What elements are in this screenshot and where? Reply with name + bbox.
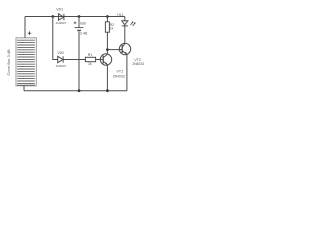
svg-text:Bat: Bat [80, 21, 85, 25]
wire VT1 emitter down to bottom rail [106, 65, 108, 91]
wire R1 to VT1 base [96, 59, 104, 61]
svg-text:VD1: VD1 [56, 8, 63, 12]
resistor R1 [85, 57, 95, 61]
wire R2 bottom to node D [106, 32, 108, 49]
wire node B down to battery [78, 17, 80, 28]
resistor R2 [105, 22, 109, 32]
battery Bat 2.4V [75, 28, 84, 31]
svg-text:2.4В: 2.4В [80, 32, 88, 36]
diode VD1 1N4007 [59, 14, 64, 20]
wire top rail [25, 16, 125, 18]
wire battery minus down to bottom rail [78, 31, 80, 90]
svg-text:Солн.бат 3,4В: Солн.бат 3,4В [6, 49, 11, 76]
node D junction (VT1 collector / VT2 base) [106, 48, 109, 51]
wire solar minus down to bottom rail [23, 86, 25, 91]
node A junction (VD2 branch) [51, 15, 54, 18]
LED HL1 [122, 17, 128, 26]
LED light emission arrows [131, 21, 136, 26]
diode VD2 1N4007 [58, 56, 63, 62]
wire VT1 collector up to node D [106, 50, 108, 55]
wire node C to R2 [106, 17, 108, 22]
node F junction (VT1 emitter on bottom rail) [106, 89, 109, 92]
plus sign at solar positive terminal [28, 31, 32, 35]
wire node D to VT2 base [107, 49, 122, 51]
svg-text:VT1: VT1 [117, 69, 124, 73]
node B junction (battery branch) [78, 15, 81, 18]
transistor VT2 2N4033 [119, 43, 130, 54]
svg-text:2N4033: 2N4033 [113, 74, 125, 78]
svg-text:1k: 1k [88, 62, 92, 66]
svg-text:HL1: HL1 [117, 13, 123, 17]
transistor VT1 2N4033 [100, 54, 111, 65]
wire VD2 cathode to R1 [63, 59, 85, 61]
wire VT2 collector up to LED cathode [124, 26, 126, 44]
svg-text:1k: 1k [110, 26, 114, 30]
svg-text:1N4007: 1N4007 [56, 21, 67, 25]
svg-text:R1: R1 [88, 53, 93, 57]
wire bottom rail [24, 90, 127, 92]
svg-text:VD2: VD2 [57, 51, 64, 55]
wire solar plus terminal up to top rail [24, 17, 26, 38]
node C junction (R2 top on rail) [106, 15, 109, 18]
wire VT2 emitter down to bottom rail [126, 54, 128, 91]
plus sign at battery [74, 22, 77, 25]
node E junction (battery minus on bottom rail) [78, 89, 81, 92]
solar battery GB1 [16, 38, 36, 86]
wire branch from node A down to VD2 row [53, 17, 58, 60]
svg-text:1N4007: 1N4007 [56, 64, 67, 68]
svg-text:2N4033: 2N4033 [132, 62, 144, 66]
